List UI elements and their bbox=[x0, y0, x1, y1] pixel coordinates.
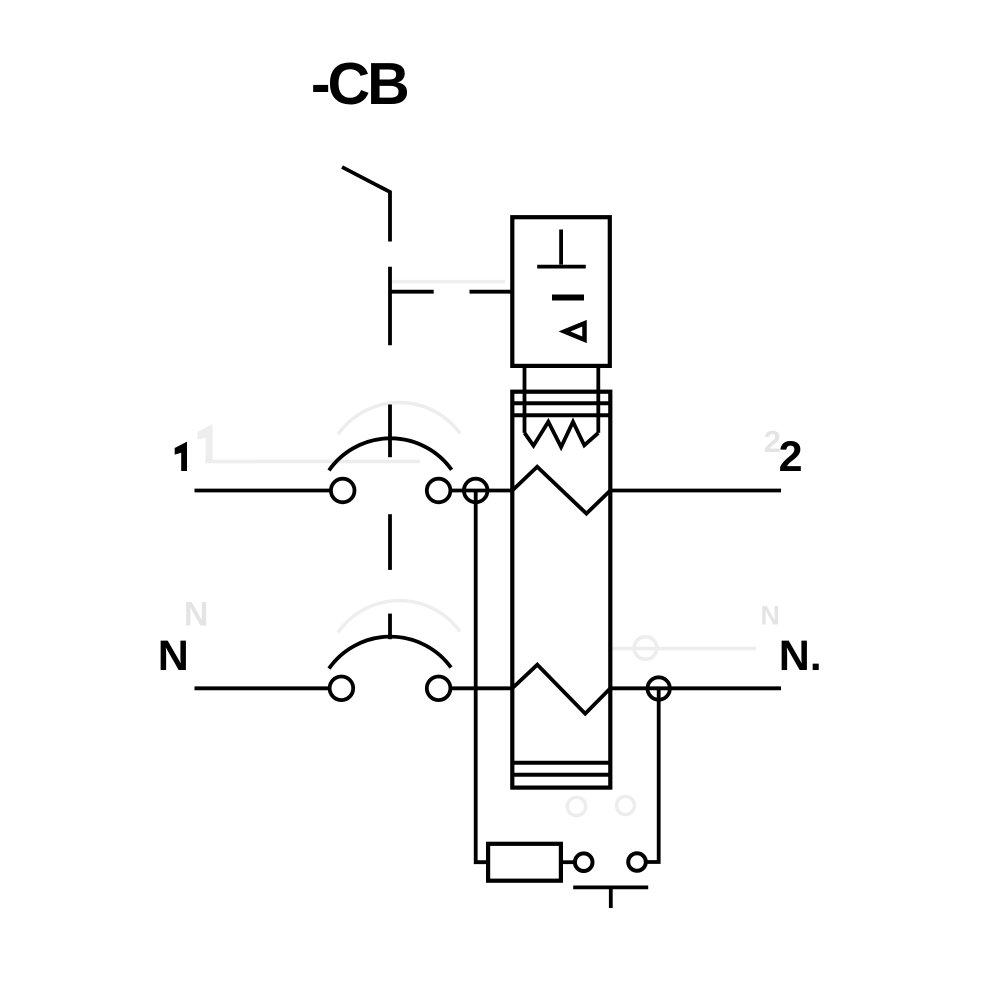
svg-text:N.: N. bbox=[779, 632, 822, 680]
svg-text:N: N bbox=[760, 601, 780, 631]
svg-text:2: 2 bbox=[779, 433, 803, 481]
svg-text:N: N bbox=[158, 632, 189, 680]
svg-text:N: N bbox=[184, 595, 209, 633]
svg-text:-CB: -CB bbox=[311, 51, 407, 117]
